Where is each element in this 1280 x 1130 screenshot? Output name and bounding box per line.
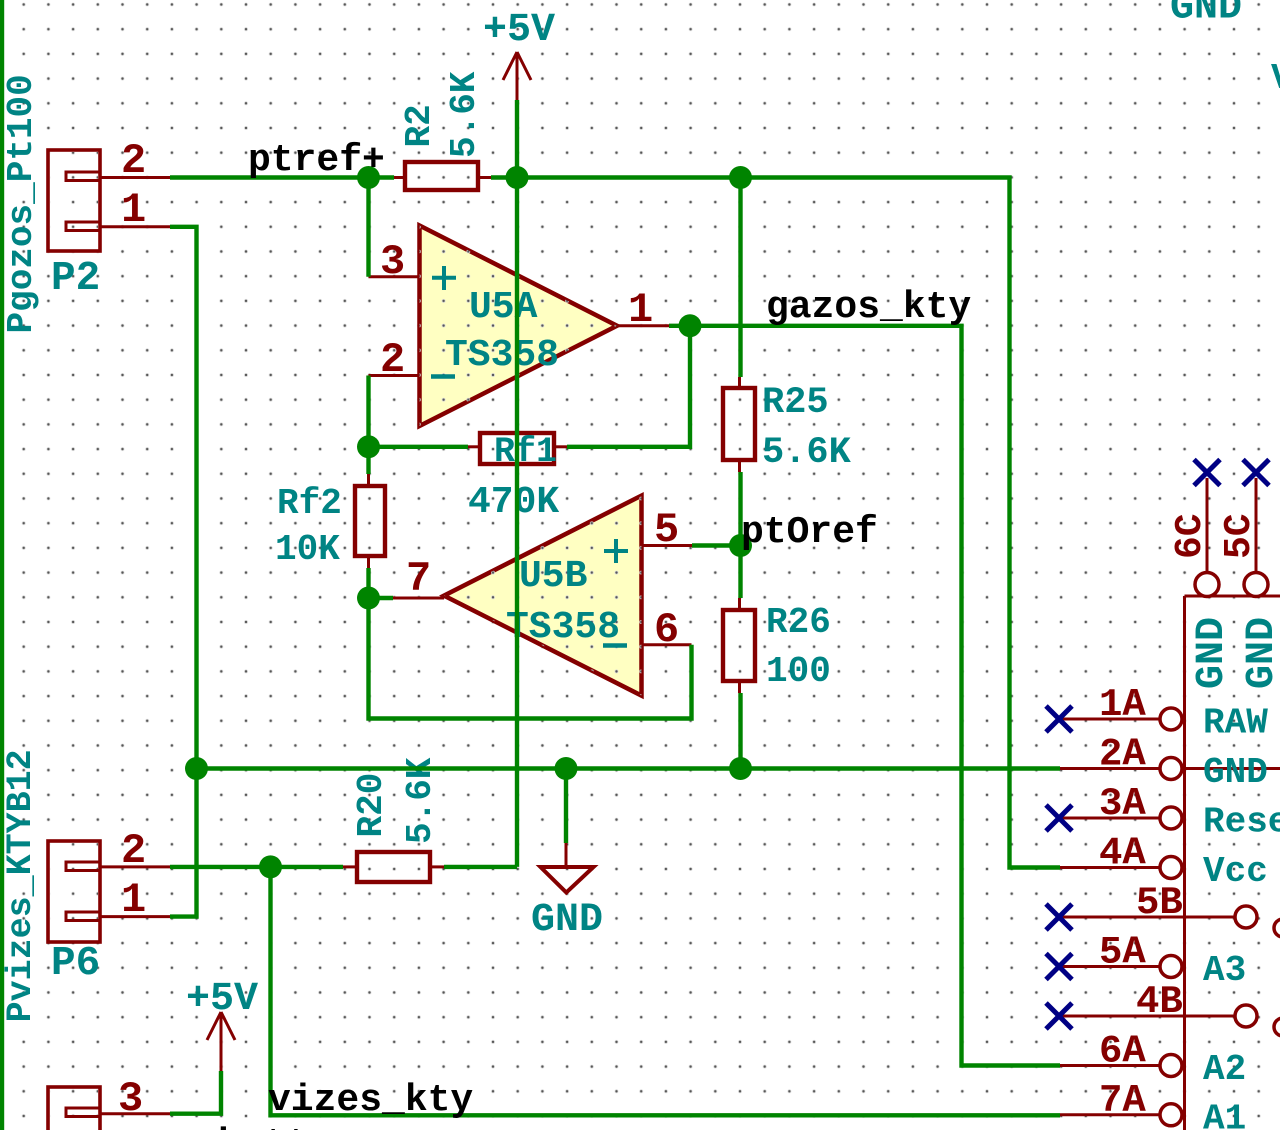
svg-text:3: 3	[380, 238, 405, 286]
module pin 2A GND	[1060, 733, 1280, 794]
svg-text:Rf2: Rf2	[277, 483, 342, 524]
resistor R25 5.6K	[723, 377, 852, 474]
svg-text:6A: 6A	[1099, 1030, 1146, 1074]
junction GND rail at GND symbol	[555, 757, 578, 780]
net label batt (clipped at bottom)	[218, 1123, 309, 1130]
svg-text:RAW: RAW	[1203, 703, 1268, 744]
svg-text:6: 6	[654, 606, 679, 654]
svg-text:1: 1	[121, 876, 146, 924]
power symbol +5V top	[483, 8, 555, 100]
junction U5A output pin1	[679, 314, 702, 337]
wire U5A pin2 down to feedback node	[366, 376, 370, 447]
wire ptref+ net from P2 pin2 to R2	[170, 175, 394, 179]
module pin 6C top	[1169, 478, 1235, 689]
no-connect X pin 5C	[1243, 460, 1269, 486]
resistor Rf2 10K	[275, 474, 385, 570]
wire feedback node to Rf1 left	[369, 445, 469, 449]
connector P6 pin 2	[100, 827, 170, 875]
clipped teal glyph V at right edge	[1271, 58, 1280, 99]
svg-text:A1: A1	[1203, 1098, 1246, 1130]
svg-text:5.6K: 5.6K	[762, 432, 852, 474]
connector P6 reference	[51, 941, 100, 987]
op-amp U5B pin 7 output	[393, 555, 444, 603]
svg-text:Vcc: Vcc	[1203, 851, 1268, 892]
wire R25 bottom to ptOref node to R26 top	[738, 472, 742, 598]
net label gazos_kty	[766, 286, 971, 329]
svg-text:2A: 2A	[1099, 733, 1146, 777]
svg-text:2: 2	[380, 336, 405, 384]
module pin 4A Vcc	[1060, 832, 1268, 893]
module pin 5A A3	[1060, 931, 1246, 992]
svg-text:GND: GND	[531, 898, 603, 943]
resistor R20 5.6K	[343, 757, 444, 882]
svg-text:R26: R26	[766, 602, 831, 643]
svg-text:7A: 7A	[1099, 1079, 1146, 1123]
svg-text:470K: 470K	[468, 481, 559, 524]
svg-text:TS358: TS358	[445, 334, 559, 377]
svg-text:5A: 5A	[1099, 931, 1146, 975]
svg-text:3: 3	[118, 1075, 143, 1123]
svg-text:5.6K: 5.6K	[444, 71, 485, 158]
wire U5A pin3 from ptref+ junction	[366, 178, 370, 277]
connector P2 reference	[51, 256, 100, 302]
connector P2 body	[48, 150, 100, 251]
connector P? bottom body (clipped)	[48, 1087, 100, 1130]
no-connect X pin 4B	[1046, 1003, 1072, 1029]
junction GND rail at P2/P6	[185, 757, 208, 780]
connector P2 value Pgozos_Pt100	[1, 74, 42, 333]
op-amp U5B TS358	[444, 496, 642, 696]
junction U5B pin7 node	[357, 587, 380, 610]
svg-text:U5B: U5B	[519, 555, 587, 598]
svg-text:5: 5	[654, 506, 679, 554]
wire P2 pin1 down to GND rail	[170, 227, 197, 769]
svg-text:GND: GND	[1190, 617, 1235, 689]
module pin 4B	[1060, 980, 1257, 1027]
svg-text:GND: GND	[1203, 752, 1268, 793]
svg-text:R25: R25	[762, 382, 829, 424]
wire U5B feedback loop pin7 node to pin6	[369, 598, 692, 719]
no-connect X pin 5B	[1046, 904, 1072, 930]
junction ptOref node	[729, 534, 752, 557]
sheet frame left border	[0, 0, 4, 1130]
svg-text:Reset: Reset	[1203, 802, 1280, 843]
svg-text:7: 7	[406, 555, 431, 603]
no-connect X pin 3A	[1046, 805, 1072, 831]
op-amp U5A pin 1 output	[617, 286, 669, 334]
resistor R2 5.6K	[394, 71, 491, 190]
svg-text:4A: 4A	[1099, 832, 1146, 876]
svg-text:6C: 6C	[1169, 513, 1212, 559]
power symbol GND	[531, 843, 603, 943]
wire U5B pin5 to ptOref node	[692, 543, 741, 547]
connector P6 pin 1	[100, 876, 170, 924]
svg-text:P2: P2	[51, 256, 100, 302]
svg-text:V: V	[1271, 58, 1280, 99]
svg-text:2: 2	[121, 137, 146, 185]
wire +5V rail top from R2 right to corner and down to Vcc pin 4A	[491, 178, 1060, 868]
module pin 3A Reset	[1060, 782, 1280, 843]
svg-text:3A: 3A	[1099, 782, 1146, 826]
svg-text:batt: batt	[218, 1123, 309, 1130]
svg-text:A2: A2	[1203, 1049, 1246, 1090]
svg-text:R20: R20	[351, 773, 392, 838]
svg-text:ptOref: ptOref	[741, 511, 878, 554]
wire +5V vertical rail from +5V arrow down to R20 row	[515, 100, 519, 867]
svg-text:ptref+: ptref+	[248, 139, 385, 182]
clipped pin circle right edge 4B row	[1274, 1018, 1280, 1036]
wire bottom connector pin3 to +5V arrow	[170, 1071, 221, 1114]
wire P6 pin1 up to GND rail	[170, 769, 197, 917]
wire vizes_kty net from R20 junction down and right to module pin 7A	[271, 867, 1061, 1115]
op-amp U5B pin 6	[642, 606, 692, 654]
connector P2 pin 2	[100, 137, 170, 185]
power symbol GND top right (clipped)	[1170, 0, 1242, 31]
svg-text:1A: 1A	[1099, 683, 1146, 727]
junction +5V rail at R25 branch	[729, 166, 752, 189]
svg-text:Pgozos_Pt100: Pgozos_Pt100	[1, 74, 42, 333]
wire Rf2 bottom to pin7 node	[366, 568, 370, 598]
wire P6 pin2 to R20 left	[170, 865, 343, 869]
svg-text:2: 2	[121, 827, 146, 875]
svg-text:GND: GND	[1240, 617, 1280, 689]
connector P2 pin 1	[100, 186, 170, 234]
wire pin7 node to U5B pin7	[369, 596, 394, 600]
svg-text:P6: P6	[51, 941, 100, 987]
net label ptOref	[741, 511, 878, 554]
resistor R26 100	[723, 598, 831, 693]
op-amp U5B pin 5	[642, 506, 693, 554]
svg-text:5C: 5C	[1218, 513, 1261, 559]
svg-text:+5V: +5V	[483, 8, 555, 53]
op-amp U5A pin 2	[369, 336, 420, 384]
svg-text:100: 100	[766, 651, 831, 692]
no-connect X pin 1A	[1046, 706, 1072, 732]
wire gazos_kty net from U5A pin1 down to module pin 6A	[690, 326, 1060, 1066]
svg-text:A3: A3	[1203, 950, 1246, 991]
junction ptref+/R2	[357, 166, 380, 189]
wire GND rail horizontal to module pin 2A	[197, 766, 1061, 770]
svg-text:5B: 5B	[1136, 881, 1183, 925]
svg-text:gazos_kty: gazos_kty	[766, 286, 971, 329]
power symbol +5V bottom	[186, 977, 258, 1071]
svg-text:vizes_kty: vizes_kty	[268, 1079, 473, 1122]
module pin 5C top	[1218, 478, 1280, 689]
module pin 1A RAW	[1060, 683, 1268, 744]
svg-text:U5A: U5A	[469, 286, 538, 329]
svg-text:10K: 10K	[275, 529, 340, 570]
wire +5V rail branch down to R25 top	[738, 178, 742, 378]
module pin 5B	[1060, 881, 1257, 928]
module pin 7A A1	[1060, 1079, 1246, 1130]
svg-text:Rf1: Rf1	[494, 432, 557, 472]
svg-text:1: 1	[121, 186, 146, 234]
resistor Rf1 470K	[468, 432, 567, 524]
net label ptref+	[248, 139, 385, 182]
svg-text:1: 1	[628, 286, 653, 334]
wire Rf1 right up to U5A output pin1	[567, 326, 690, 447]
junction GND rail at R26	[729, 757, 752, 780]
wire GND rail to GND symbol	[564, 769, 568, 844]
svg-text:R2: R2	[399, 104, 440, 147]
module pin 6A A2	[1060, 1030, 1246, 1091]
no-connect X pin 5A	[1046, 954, 1072, 980]
wire feedback node to Rf2 top	[366, 447, 370, 474]
module U? body outline	[1185, 596, 1280, 1130]
wire R20 right side to +5V rail	[444, 865, 517, 869]
clipped pin circle right edge 5B row	[1274, 919, 1280, 937]
svg-text:Pvizes_KTYB12: Pvizes_KTYB12	[1, 749, 41, 1022]
junction +5V at R2 output	[506, 166, 529, 189]
wire R26 bottom to GND rail	[738, 693, 742, 769]
connector P? pin 3	[100, 1075, 170, 1123]
junction U5A pin2 feedback node	[357, 435, 380, 458]
svg-text:4B: 4B	[1136, 980, 1183, 1024]
no-connect X pin 6C	[1194, 460, 1220, 486]
connector P6 body	[48, 841, 100, 942]
op-amp U5A pin 3	[369, 238, 420, 286]
op-amp U5A TS358	[420, 226, 618, 427]
svg-text:GND: GND	[1170, 0, 1242, 31]
junction vizes_kty at P6 pin2	[259, 855, 282, 878]
svg-text:TS358: TS358	[506, 606, 620, 649]
net label vizes_kty	[268, 1079, 473, 1122]
connector P6 value Pvizes_KTYB12	[1, 749, 41, 1022]
